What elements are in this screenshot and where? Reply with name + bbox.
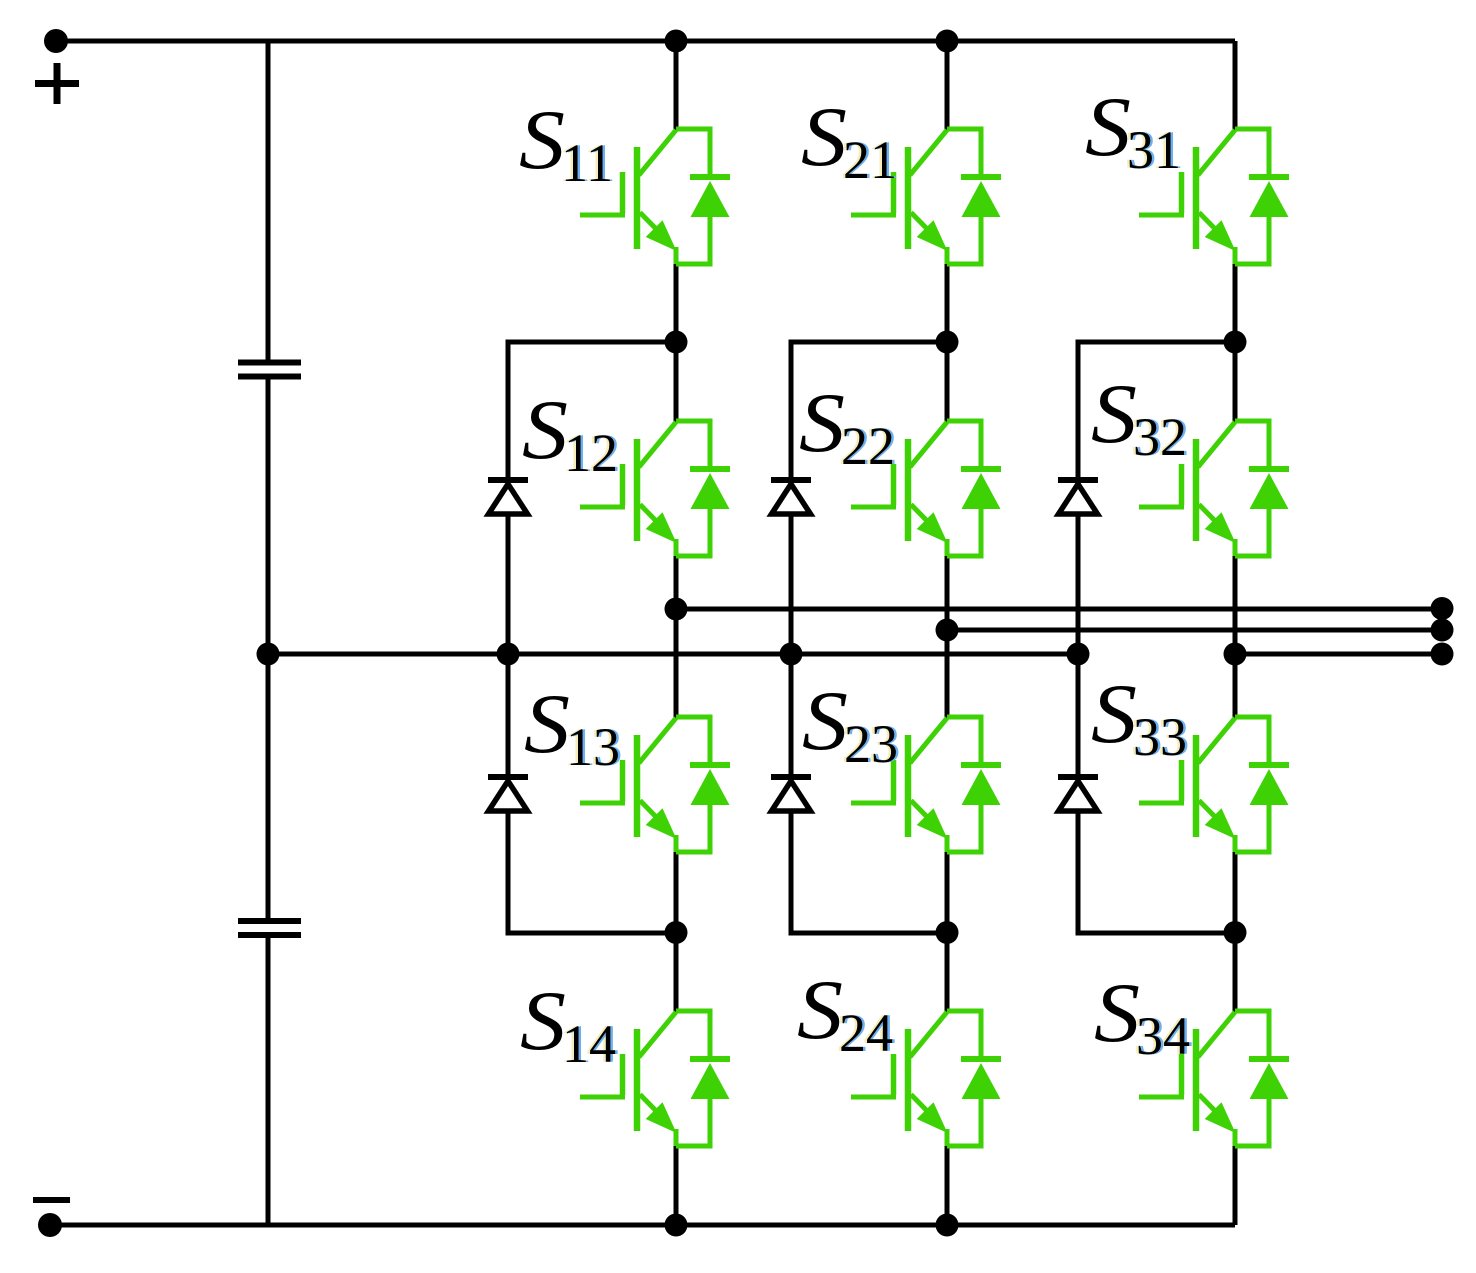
wire neutral point line [268, 652, 1078, 657]
node DC- terminal [38, 1213, 62, 1237]
label S12 [522, 383, 621, 483]
node leg 2 phase tap [936, 619, 959, 642]
label S34 [1094, 966, 1193, 1066]
svg-text:14: 14 [562, 1014, 616, 1074]
diode D32 (lower clamp) [1058, 777, 1098, 811]
svg-text:22: 22 [841, 416, 895, 476]
diode D31 (upper clamp) [1058, 480, 1098, 514]
node leg 2 bottom junction [936, 921, 959, 944]
transistor S22 (IGBT with antiparallel diode) [851, 421, 1001, 556]
node leg 1 at bottom bus [665, 1214, 688, 1237]
node leg 3 phase tap [1224, 643, 1247, 666]
svg-text:23: 23 [844, 714, 898, 774]
node clamp branch leg 3 neutral connection [1067, 643, 1090, 666]
svg-text:32: 32 [1133, 407, 1187, 467]
label S21 [801, 90, 900, 190]
wire phase A output line [676, 607, 1442, 612]
wire phase C output line [1235, 652, 1442, 657]
svg-text:13: 13 [566, 717, 620, 777]
svg-text:12: 12 [564, 423, 618, 483]
svg-text:24: 24 [839, 1003, 893, 1063]
transistor S24 (IGBT with antiparallel diode) [851, 1011, 1001, 1146]
label S11 [519, 93, 616, 193]
node leg 1 top junction [665, 331, 688, 354]
wire left bus middle segment [266, 377, 271, 922]
transistor S34 (IGBT with antiparallel diode) [1139, 1011, 1289, 1146]
node phase C output terminal [1431, 643, 1454, 666]
transistor S13 (IGBT with antiparallel diode) [580, 717, 730, 852]
node phase B output terminal [1431, 619, 1454, 642]
label S14 [520, 974, 619, 1074]
label + (positive terminal) [35, 63, 79, 104]
svg-text:31: 31 [1127, 120, 1181, 180]
node leg 2 at bottom bus [936, 1214, 959, 1237]
wire leg 1 vertical segments [674, 41, 679, 1225]
transistor S11 (IGBT with antiparallel diode) [580, 129, 730, 264]
capacitor C2 (lower dc-link) [238, 921, 301, 935]
wire clamp-diode branch leg 3 [1078, 342, 1235, 933]
node leg 2 at top bus [936, 30, 959, 53]
node leg 1 bottom junction [665, 921, 688, 944]
wire leg 3 vertical segments [1233, 41, 1238, 1225]
label S13 [524, 677, 623, 777]
label S24 [797, 963, 896, 1063]
wire top DC bus [56, 39, 1235, 44]
node clamp branch leg 1 neutral connection [497, 643, 520, 666]
node phase A output terminal [1431, 597, 1454, 620]
node DC+ terminal [44, 29, 68, 53]
capacitor C1 (upper dc-link) [238, 363, 301, 377]
svg-text:34: 34 [1136, 1006, 1190, 1066]
transistor S31 (IGBT with antiparallel diode) [1139, 129, 1289, 264]
transistor S33 (IGBT with antiparallel diode) [1139, 717, 1289, 852]
node leg 2 top junction [936, 331, 959, 354]
label S33 [1091, 667, 1190, 767]
svg-text:33: 33 [1133, 707, 1187, 767]
diode D21 (upper clamp) [771, 480, 811, 514]
transistor S21 (IGBT with antiparallel diode) [851, 129, 1001, 264]
label S31 [1085, 80, 1184, 180]
svg-text:11: 11 [561, 133, 613, 193]
node leg 1 at top bus [665, 30, 688, 53]
transistor S23 (IGBT with antiparallel diode) [851, 717, 1001, 852]
diode D12 (lower clamp) [488, 777, 528, 811]
node neutral at left bus [257, 643, 280, 666]
diode D22 (lower clamp) [771, 777, 811, 811]
transistor S14 (IGBT with antiparallel diode) [580, 1011, 730, 1146]
wire left bus upper segment [266, 39, 271, 364]
transistor S12 (IGBT with antiparallel diode) [580, 421, 730, 556]
wire left bus lower segment [266, 935, 271, 1228]
wire phase B output line [947, 628, 1442, 633]
label S23 [802, 674, 901, 774]
node leg 3 top junction [1224, 331, 1247, 354]
node leg 3 bottom junction [1224, 921, 1247, 944]
label S22 [799, 376, 898, 476]
label S32 [1091, 367, 1190, 467]
wire bottom DC bus [50, 1223, 1235, 1228]
wire leg 2 vertical segments [945, 41, 950, 1225]
transistor S32 (IGBT with antiparallel diode) [1139, 421, 1289, 556]
svg-text:21: 21 [843, 130, 897, 190]
node leg 1 phase tap [665, 598, 688, 621]
wire clamp-diode branch leg 1 [508, 342, 676, 933]
node clamp branch leg 2 neutral connection [780, 643, 803, 666]
wire clamp-diode branch leg 2 [791, 342, 947, 933]
label - (negative terminal) [33, 1197, 70, 1203]
diode D11 (upper clamp) [488, 480, 528, 514]
